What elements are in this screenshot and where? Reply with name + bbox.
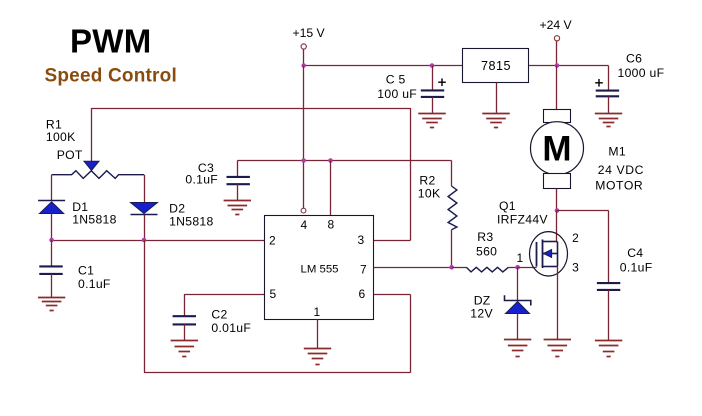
- label M1 24VDC MOTOR: [595, 145, 644, 193]
- pin number 1: [314, 305, 321, 319]
- svg-text:1N5818: 1N5818: [169, 214, 214, 228]
- svg-text:8: 8: [328, 218, 335, 232]
- terminal +15V circle: [301, 44, 306, 49]
- ground below C4: [595, 341, 622, 357]
- ground below 7815: [482, 114, 509, 128]
- C5 plus sign: [438, 78, 446, 86]
- svg-text:0.01uF: 0.01uF: [211, 321, 251, 335]
- junction pin4 line tap: [301, 158, 306, 163]
- svg-text:IRFZ44V: IRFZ44V: [497, 212, 548, 226]
- wire pin7 stub: [374, 267, 452, 269]
- wire R2 bottom lead: [451, 230, 453, 268]
- ground below C3: [224, 201, 251, 215]
- wire C5 bottom lead: [432, 97, 434, 114]
- ground below DZ: [504, 340, 531, 357]
- ground below pin1: [304, 349, 331, 365]
- label R3 560: [476, 230, 497, 258]
- svg-text:POT: POT: [57, 148, 83, 162]
- wire C4 branch horizontal: [557, 210, 609, 212]
- svg-text:MOTOR: MOTOR: [595, 179, 643, 193]
- wire pin8 drop: [330, 161, 332, 216]
- label C5: [377, 73, 417, 101]
- wire C2 top lead: [184, 294, 186, 316]
- pot wiper arrow: [84, 161, 99, 170]
- svg-text:C2: C2: [211, 308, 227, 322]
- pin number 6: [359, 287, 366, 301]
- wire C3 top lead: [237, 161, 239, 177]
- wire timing node row to pin2: [52, 240, 265, 242]
- wire node down: [144, 240, 146, 373]
- junction pin8 line tap: [328, 158, 333, 163]
- svg-text:+15 V: +15 V: [293, 26, 326, 40]
- pin number 3 source: [572, 261, 579, 275]
- label R1 100K POT: [46, 118, 83, 162]
- svg-text:1N5818: 1N5818: [72, 213, 117, 227]
- wire down to pin4 circle: [303, 161, 305, 209]
- junction node D2/feedback: [142, 238, 147, 243]
- wire R2 top lead: [451, 161, 453, 187]
- label C6: [618, 52, 665, 80]
- power terminal +15V: [293, 26, 326, 40]
- pin number 3: [358, 233, 365, 247]
- wire motor to drain node: [556, 189, 558, 211]
- wire rail 15V to 7815 input: [304, 65, 463, 67]
- label C2: [211, 308, 251, 336]
- diode D2 1N5818: [131, 203, 158, 215]
- svg-text:4: 4: [301, 218, 308, 232]
- svg-text:0.1uF: 0.1uF: [78, 277, 111, 291]
- junction rail at C5: [430, 63, 435, 68]
- svg-text:100K: 100K: [46, 130, 76, 144]
- wire R3 right flat: [508, 267, 517, 269]
- junction rail at +24V: [555, 63, 560, 68]
- svg-text:+24 V: +24 V: [540, 18, 573, 32]
- resistor R3 560: [466, 267, 508, 272]
- wire 15V down to pin4/8 line: [303, 66, 305, 161]
- wire D1 anode lead: [51, 214, 53, 241]
- capacitor C6 1000uF: [596, 91, 619, 97]
- wire motor feed: [556, 66, 558, 110]
- svg-text:Speed Control: Speed Control: [45, 66, 177, 87]
- svg-text:1: 1: [517, 251, 524, 265]
- pin number 8: [328, 218, 335, 232]
- capacitor C4 0.1uF: [597, 283, 620, 290]
- wire C1 top lead: [51, 240, 53, 266]
- label C1: [78, 264, 111, 292]
- label D1: [72, 200, 117, 227]
- ground below Q1 source: [544, 340, 571, 357]
- svg-text:PWM: PWM: [70, 23, 152, 60]
- wire pin3 riser: [410, 108, 412, 240]
- svg-text:12V: 12V: [470, 307, 493, 321]
- svg-text:3: 3: [358, 233, 365, 247]
- transistor Q1 IRFZ44V: [530, 232, 568, 276]
- timer U1 LM555: [265, 216, 374, 320]
- svg-text:DZ: DZ: [474, 293, 491, 307]
- pin number 7: [360, 263, 367, 277]
- label C3: [185, 161, 218, 187]
- subtitle Speed Control: [45, 66, 177, 87]
- zener diode DZ 12V: [505, 295, 531, 313]
- capacitor C2 0.01uF: [173, 316, 196, 324]
- wire zener top lead: [517, 267, 519, 300]
- svg-text:24 VDC: 24 VDC: [598, 163, 644, 177]
- wire C3 bottom lead: [237, 184, 239, 201]
- svg-text:560: 560: [476, 244, 497, 258]
- label D2: [169, 202, 214, 229]
- svg-text:1000 uF: 1000 uF: [618, 66, 665, 80]
- ground below C6: [595, 114, 622, 127]
- label C4: [620, 246, 653, 275]
- C6 plus sign: [595, 79, 603, 87]
- wire pot right drop: [144, 175, 146, 203]
- svg-text:C1: C1: [78, 264, 94, 278]
- wire +15V stem: [303, 50, 305, 66]
- pin 4 reset terminal circle: [301, 208, 306, 213]
- svg-text:0.1uF: 0.1uF: [185, 173, 218, 187]
- motor M1: [531, 110, 584, 189]
- svg-text:LM 555: LM 555: [301, 264, 339, 276]
- junction drain node: [555, 208, 560, 213]
- svg-text:7: 7: [360, 263, 367, 277]
- capacitor C3 0.1uF: [227, 177, 250, 184]
- svg-text:3: 3: [572, 261, 579, 275]
- svg-text:M1: M1: [608, 145, 626, 159]
- wire drain wire: [556, 211, 558, 242]
- svg-text:M: M: [542, 130, 571, 169]
- junction rail at +15V: [301, 63, 306, 68]
- svg-text:Q1: Q1: [499, 199, 516, 213]
- wire bottom return: [144, 372, 411, 374]
- wire D2 cathode lead: [144, 215, 146, 240]
- wire C2 bottom lead: [184, 324, 186, 340]
- wire C4 bottom lead: [608, 290, 610, 341]
- wire rail 7815 output to C6: [529, 65, 608, 67]
- wire C3/pin4/pin8 line: [237, 160, 451, 162]
- svg-text:2: 2: [269, 234, 276, 248]
- title PWM: [70, 23, 152, 60]
- svg-text:6: 6: [359, 287, 366, 301]
- svg-text:R2: R2: [419, 173, 435, 187]
- wire pin5 stub: [184, 294, 264, 296]
- pin number 2 drain: [572, 231, 579, 245]
- regulator U2 7815: [463, 49, 529, 83]
- wire wiper stem: [91, 108, 93, 162]
- wire pot wiper rail: [92, 108, 411, 110]
- svg-text:100 uF: 100 uF: [377, 87, 417, 101]
- svg-text:C6: C6: [626, 52, 642, 66]
- wire zener bottom lead: [517, 314, 519, 340]
- svg-text:10K: 10K: [418, 187, 441, 201]
- wire pin3 stub: [374, 240, 411, 242]
- capacitor C1 0.1uF: [39, 266, 62, 274]
- wire pin1 stub: [317, 320, 319, 349]
- svg-text:5: 5: [270, 287, 277, 301]
- potentiometer R1: [52, 171, 144, 179]
- wire R3 left flat: [452, 267, 467, 269]
- resistor R2 10K: [448, 186, 457, 230]
- svg-text:C4: C4: [627, 246, 643, 260]
- wire C6 bottom lead: [608, 96, 610, 113]
- wire pin6 stub: [374, 294, 411, 296]
- wire gate lead: [518, 267, 537, 269]
- svg-text:0.1uF: 0.1uF: [620, 261, 653, 275]
- ground below C1: [38, 298, 65, 311]
- svg-text:7815: 7815: [481, 59, 511, 73]
- wire C4 top lead: [608, 211, 610, 284]
- wire 7815 ground stub: [496, 82, 498, 114]
- ground below C5: [418, 114, 445, 128]
- wire pin6 riser: [410, 295, 412, 373]
- junction node R2/pin7/R3: [449, 265, 454, 270]
- junction node D1/C1: [49, 238, 54, 243]
- wire C6 top lead: [608, 66, 610, 91]
- svg-text:1: 1: [314, 305, 321, 319]
- pin number 1 gate: [517, 251, 524, 265]
- svg-text:2: 2: [572, 231, 579, 245]
- terminal +24V circle: [554, 36, 559, 41]
- svg-text:C 5: C 5: [386, 73, 406, 87]
- pin number 5: [270, 287, 277, 301]
- junction node gate/zener: [515, 265, 520, 270]
- label DZ 12V: [470, 293, 493, 320]
- wire +24V stem: [556, 41, 558, 65]
- capacitor C5 100uF: [421, 90, 444, 97]
- ground below C2: [171, 341, 198, 357]
- power terminal +24V: [540, 18, 573, 32]
- pin number 4: [301, 218, 308, 232]
- wire C1 bottom lead: [51, 274, 53, 297]
- wire pot left drop: [51, 175, 53, 201]
- pin number 2: [269, 234, 276, 248]
- svg-text:R3: R3: [477, 230, 493, 244]
- label Q1 IRFZ44V: [497, 199, 548, 226]
- label R2: [418, 173, 441, 200]
- wire source wire: [557, 266, 559, 340]
- wire C5 top lead: [432, 66, 434, 91]
- diode D1 1N5818: [38, 201, 65, 214]
